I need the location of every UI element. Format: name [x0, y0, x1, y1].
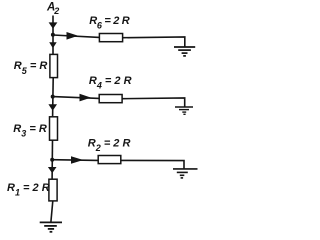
svg-text:2: 2 [53, 6, 59, 16]
